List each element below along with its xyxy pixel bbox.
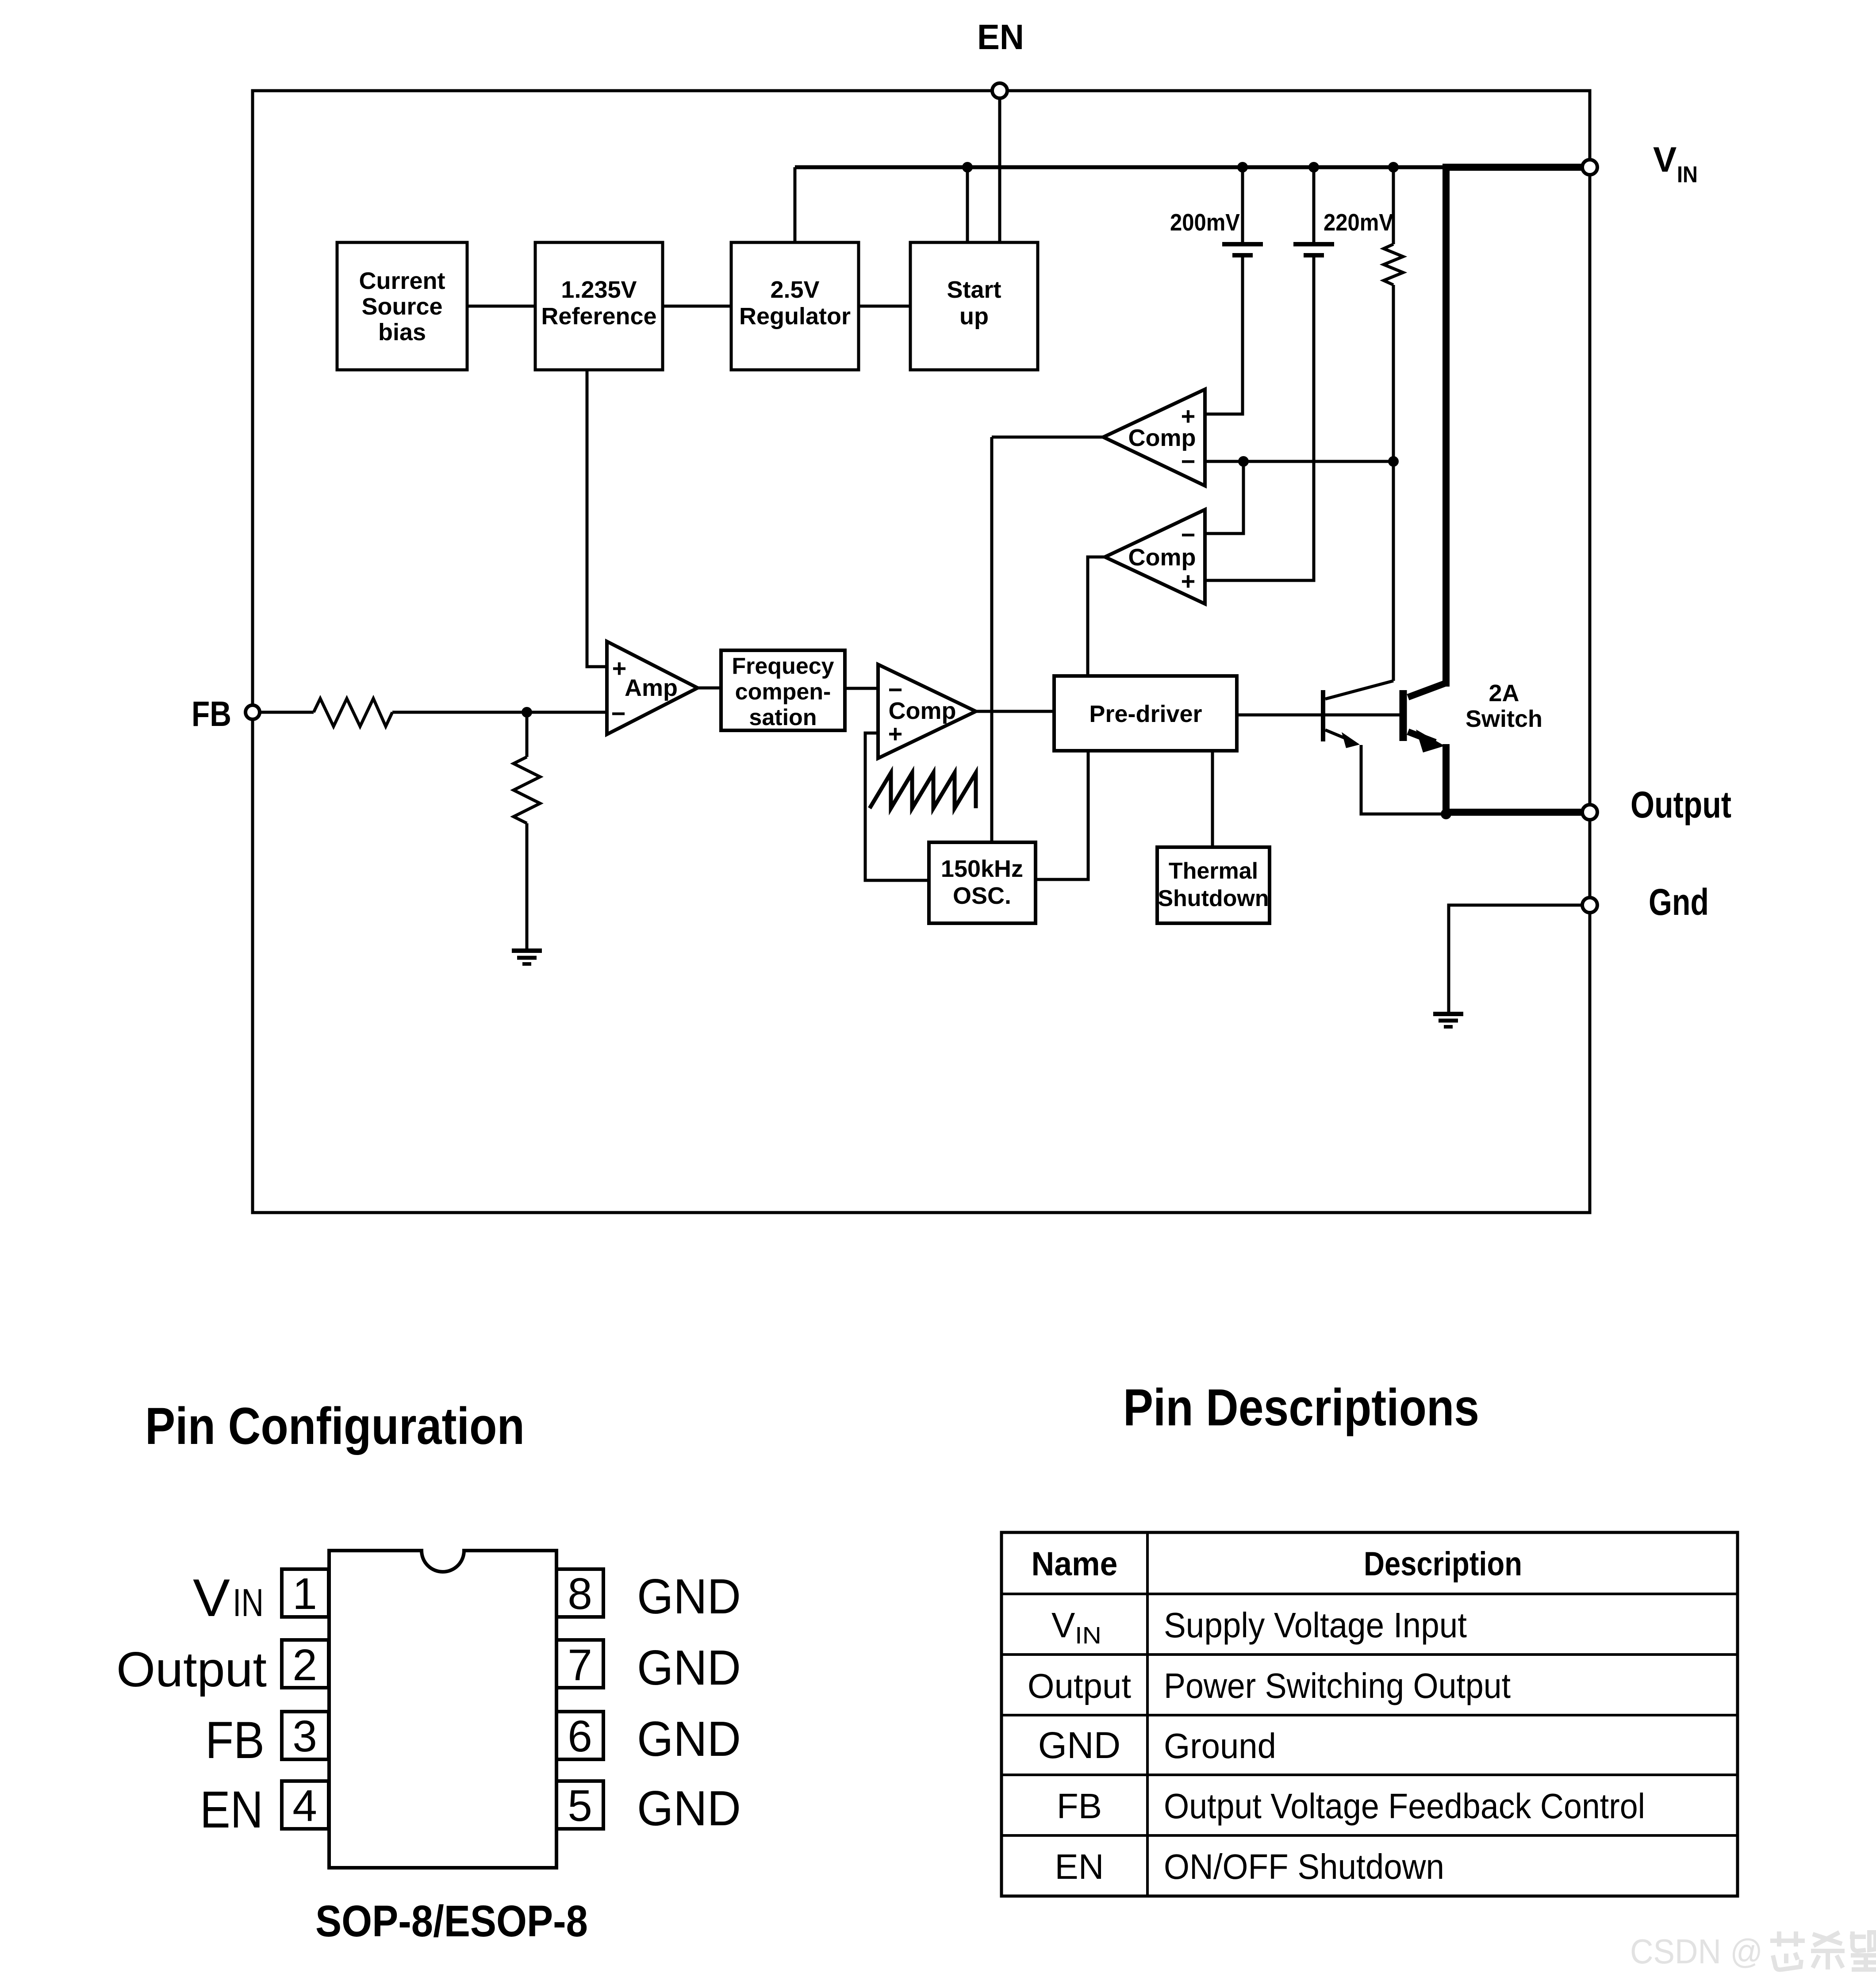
battery B2 220mV offset xyxy=(1293,167,1334,255)
block Pre-driver xyxy=(1054,676,1237,751)
svg-text:Output: Output xyxy=(1630,784,1731,825)
svg-text:bias: bias xyxy=(378,319,426,346)
svg-text:Supply Voltage Input: Supply Voltage Input xyxy=(1164,1605,1467,1645)
resistor R3 current sense xyxy=(1384,167,1403,681)
wire FB input xyxy=(260,711,314,714)
svg-text:Frequecy: Frequecy xyxy=(732,653,834,679)
svg-text:V: V xyxy=(1051,1605,1075,1645)
battery B1 200mV offset xyxy=(1222,167,1263,255)
svg-text:GND: GND xyxy=(637,1781,741,1836)
label 2A Switch xyxy=(1466,680,1542,732)
svg-text:FB: FB xyxy=(1057,1786,1102,1826)
svg-text:Ground: Ground xyxy=(1164,1726,1276,1766)
pin description table frame xyxy=(1001,1532,1738,1896)
table row FB xyxy=(1057,1786,1645,1826)
table row VIN xyxy=(1051,1605,1467,1649)
table header Name xyxy=(1032,1545,1118,1583)
svg-text:EN: EN xyxy=(1055,1847,1104,1886)
svg-text:Source: Source xyxy=(361,293,442,320)
op-amp Comp current limit 1 xyxy=(1103,389,1205,486)
svg-text:compen-: compen- xyxy=(735,679,831,705)
section title Pin Descriptions xyxy=(1123,1378,1479,1437)
wire PWM comp output to Pre-driver xyxy=(976,710,1054,713)
wire PWM comp plus input from OSC xyxy=(865,733,929,880)
block Thermal Shutdown xyxy=(1157,847,1270,923)
svg-text:Switch: Switch xyxy=(1466,706,1542,732)
svg-text:−: − xyxy=(1181,447,1196,475)
wire comp2 plus input to 220mV battery xyxy=(1205,256,1314,580)
wire comp1 plus input to 200mV battery xyxy=(1205,256,1243,414)
block U4 Start up xyxy=(910,242,1038,370)
terminal EN xyxy=(977,17,1024,98)
pin label FB xyxy=(205,1711,265,1770)
svg-text:V: V xyxy=(1653,140,1677,179)
svg-text:Power Switching Output: Power Switching Output xyxy=(1164,1666,1511,1705)
junction dot rail 200mV xyxy=(1237,162,1248,173)
pin 3 box xyxy=(282,1712,329,1761)
svg-text:EN: EN xyxy=(200,1781,263,1839)
block U3 2.5V Regulator xyxy=(731,242,859,370)
svg-text:OSC.: OSC. xyxy=(953,883,1011,909)
svg-text:sation: sation xyxy=(749,705,817,730)
wire rail drop to 2.5V Regulator xyxy=(794,167,797,242)
svg-text:5: 5 xyxy=(568,1781,592,1831)
svg-text:Pin Configuration: Pin Configuration xyxy=(145,1397,525,1455)
wire EN drop to Start up xyxy=(998,96,1001,242)
terminal FB xyxy=(192,694,260,733)
junction dot rail 220mV xyxy=(1308,162,1319,173)
caption SOP-8/ESOP-8 xyxy=(315,1897,588,1946)
label 200mV xyxy=(1170,209,1240,236)
pin 7 box xyxy=(556,1640,603,1690)
pin 8 box xyxy=(556,1569,603,1619)
svg-text:2.5V: 2.5V xyxy=(770,276,819,303)
svg-text:6: 6 xyxy=(568,1712,592,1761)
svg-text:Pre-driver: Pre-driver xyxy=(1089,701,1202,727)
pin label Output xyxy=(116,1642,267,1697)
block U2 1.235V Reference xyxy=(535,242,663,370)
label 220mV xyxy=(1324,209,1393,236)
block Frequency compensation xyxy=(721,650,845,730)
svg-text:Comp: Comp xyxy=(1128,544,1196,571)
svg-text:CSDN @: CSDN @ xyxy=(1630,1932,1763,1971)
wire comparator bus vertical to OSC xyxy=(990,437,994,842)
svg-text:2A: 2A xyxy=(1489,680,1519,706)
svg-text:Description: Description xyxy=(1364,1545,1522,1583)
svg-text:Pin Descriptions: Pin Descriptions xyxy=(1123,1378,1479,1437)
table row EN xyxy=(1055,1847,1444,1886)
svg-text:+: + xyxy=(1181,567,1196,595)
wire U3 to U4 xyxy=(859,305,910,308)
package SOP-8 body with notch xyxy=(329,1551,556,1868)
terminal VIN xyxy=(1582,140,1698,188)
ground symbol internal xyxy=(1433,1014,1463,1027)
svg-text:IN: IN xyxy=(1075,1622,1101,1649)
wire U1 to U2 xyxy=(467,305,535,308)
transistor Q1 driver xyxy=(1323,681,1444,814)
pin label GND 8 xyxy=(637,1569,741,1624)
wire OSC right output to Pre-driver bottom xyxy=(1036,751,1088,879)
op-amp Comp current limit 2 xyxy=(1105,510,1205,604)
block U1 Current Source bias xyxy=(337,242,467,370)
pin label GND 5 xyxy=(637,1781,741,1836)
svg-text:200mV: 200mV xyxy=(1170,209,1240,236)
wire reference to Amp plus input xyxy=(587,370,607,667)
section title Pin Configuration xyxy=(145,1397,525,1455)
table row Output xyxy=(1028,1666,1511,1705)
pin 1 box xyxy=(282,1569,329,1619)
svg-text:Gnd: Gnd xyxy=(1649,881,1709,923)
svg-text:Thermal: Thermal xyxy=(1169,858,1258,884)
wire comp1 minus input sense line xyxy=(1205,460,1393,463)
svg-text:Start: Start xyxy=(947,276,1001,303)
pin label EN xyxy=(200,1781,263,1839)
svg-text:+: + xyxy=(888,720,903,748)
wire comp2 minus input xyxy=(1205,461,1243,534)
watermark CSDN xyxy=(1630,1931,1876,1971)
svg-text:EN: EN xyxy=(977,17,1024,57)
table row GND xyxy=(1038,1724,1276,1766)
svg-text:220mV: 220mV xyxy=(1324,209,1393,236)
svg-text:SOP-8/ESOP-8: SOP-8/ESOP-8 xyxy=(315,1897,588,1946)
ground symbol under R2 xyxy=(512,951,542,964)
svg-text:Regulator: Regulator xyxy=(739,303,851,330)
terminal Output xyxy=(1582,784,1731,825)
wire Pre-driver output base line xyxy=(1237,714,1400,717)
pin label VIN xyxy=(193,1568,264,1628)
svg-text:FB: FB xyxy=(205,1711,265,1770)
svg-text:Output: Output xyxy=(1028,1666,1131,1705)
svg-text:150kHz: 150kHz xyxy=(941,856,1023,882)
svg-text:2: 2 xyxy=(292,1640,317,1690)
svg-text:4: 4 xyxy=(292,1781,317,1831)
svg-text:ON/OFF Shutdown: ON/OFF Shutdown xyxy=(1164,1847,1444,1886)
pin label GND 6 xyxy=(637,1712,741,1766)
junction dot rail sense resistor xyxy=(1388,162,1399,173)
op-amp Amp error amplifier xyxy=(607,641,698,734)
pin 2 box xyxy=(282,1640,329,1690)
junction dot Q1 emitter to output line xyxy=(1441,809,1451,819)
transistor Q2 2A switch xyxy=(1403,164,1590,812)
outer IC boundary box xyxy=(253,91,1590,1213)
pin 4 box xyxy=(282,1781,329,1831)
svg-text:1.235V: 1.235V xyxy=(561,276,637,303)
wire comp2 output down to Pre-driver top xyxy=(1088,557,1105,676)
svg-text:−: − xyxy=(611,699,626,727)
pin 6 box xyxy=(556,1712,603,1761)
junction dot sense resistor node xyxy=(1388,456,1399,467)
net VIN rail xyxy=(795,165,1590,169)
wire Frequency compensation to PWM comparator xyxy=(845,687,878,690)
svg-text:IN: IN xyxy=(1677,162,1698,188)
svg-text:Reference: Reference xyxy=(541,303,656,330)
svg-text:3: 3 xyxy=(292,1712,317,1761)
svg-text:GND: GND xyxy=(637,1712,741,1766)
svg-text:FB: FB xyxy=(192,694,231,733)
pin label GND 7 xyxy=(637,1640,741,1695)
svg-text:Output Voltage Feedback Contro: Output Voltage Feedback Control xyxy=(1164,1786,1645,1826)
wire FB node to Amp minus xyxy=(392,711,607,714)
svg-text:Name: Name xyxy=(1032,1545,1118,1583)
svg-text:GND: GND xyxy=(637,1569,741,1624)
svg-text:Output: Output xyxy=(116,1642,267,1697)
svg-text:7: 7 xyxy=(568,1640,592,1690)
pin 5 box xyxy=(556,1781,603,1831)
svg-text:up: up xyxy=(959,303,989,330)
junction dot comp minus branch xyxy=(1238,456,1249,467)
sawtooth waveform symbol xyxy=(870,773,976,808)
op-amp PWM Comp xyxy=(878,664,976,758)
svg-text:1: 1 xyxy=(292,1569,317,1619)
wire rail drop to Start up xyxy=(966,167,969,242)
wire U2 to U3 xyxy=(663,305,731,308)
svg-text:V: V xyxy=(193,1568,230,1628)
wire Gnd terminal to ground xyxy=(1449,905,1582,1013)
resistor R2 FB shunt xyxy=(514,712,540,949)
svg-text:8: 8 xyxy=(568,1569,592,1619)
svg-text:GND: GND xyxy=(1038,1724,1121,1766)
svg-text:Shutdown: Shutdown xyxy=(1158,886,1269,911)
svg-text:GND: GND xyxy=(637,1640,741,1695)
wire Amp to Frequency compensation xyxy=(698,687,721,690)
wire Pre-driver to Thermal Shutdown xyxy=(1211,751,1214,847)
junction dot rail/startup xyxy=(962,162,973,173)
table header Description xyxy=(1364,1545,1522,1583)
terminal Gnd xyxy=(1582,881,1709,923)
svg-text:Amp: Amp xyxy=(625,675,678,701)
svg-text:Current: Current xyxy=(359,268,445,294)
wire comp1 output to bus xyxy=(992,436,1103,439)
junction dot FB node xyxy=(522,707,532,718)
resistor R1 FB series xyxy=(314,699,392,726)
svg-text:IN: IN xyxy=(233,1581,264,1624)
block 150kHz OSC xyxy=(929,842,1036,923)
